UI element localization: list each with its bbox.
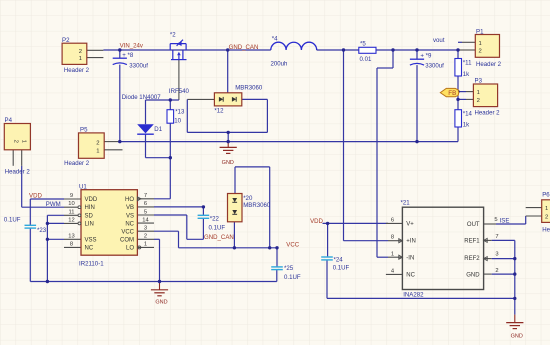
svg-text:*4: *4 xyxy=(272,36,278,43)
svg-text:NC: NC xyxy=(85,246,94,252)
svg-text:PWM: PWM xyxy=(46,201,61,208)
svg-text:1: 1 xyxy=(391,251,394,257)
svg-text:+ *8: + *8 xyxy=(122,52,134,59)
svg-text:13: 13 xyxy=(68,234,74,240)
svg-text:2: 2 xyxy=(477,98,480,104)
svg-text:VS: VS xyxy=(126,213,134,219)
svg-text:1: 1 xyxy=(477,90,480,96)
svg-text:7: 7 xyxy=(144,193,147,199)
svg-text:3300uf: 3300uf xyxy=(129,63,148,70)
svg-text:11: 11 xyxy=(68,209,74,215)
svg-text:1: 1 xyxy=(545,206,548,212)
svg-text:GND: GND xyxy=(466,272,480,278)
svg-text:IR2110-1: IR2110-1 xyxy=(79,260,104,267)
svg-text:1: 1 xyxy=(479,41,482,47)
svg-text:VCC: VCC xyxy=(286,241,299,248)
svg-text:*20: *20 xyxy=(243,195,253,202)
svg-text:P1: P1 xyxy=(476,29,484,36)
svg-text:3: 3 xyxy=(495,251,498,257)
svg-text:9: 9 xyxy=(70,193,73,199)
svg-text:Header 2: Header 2 xyxy=(476,61,502,68)
svg-text:Diode 1N4007: Diode 1N4007 xyxy=(122,94,162,101)
svg-text:NC: NC xyxy=(406,272,415,278)
svg-text:GND_CAN: GND_CAN xyxy=(204,234,234,241)
svg-text:OUT: OUT xyxy=(467,222,480,228)
svg-text:*24: *24 xyxy=(334,256,344,263)
svg-text:0.1UF: 0.1UF xyxy=(4,216,21,223)
svg-text:200uh: 200uh xyxy=(271,60,288,67)
svg-text:P4: P4 xyxy=(5,117,13,124)
svg-text:1: 1 xyxy=(79,56,82,62)
svg-text:COM: COM xyxy=(120,238,134,244)
svg-text:VIN_24v: VIN_24v xyxy=(120,43,144,50)
svg-text:vout: vout xyxy=(433,37,445,44)
svg-text:2: 2 xyxy=(545,215,548,221)
svg-text:3300uf: 3300uf xyxy=(425,63,444,70)
svg-text:IRF540: IRF540 xyxy=(169,88,190,95)
svg-text:P3: P3 xyxy=(475,78,483,85)
svg-text:6: 6 xyxy=(391,218,394,224)
svg-text:GND: GND xyxy=(222,160,234,166)
svg-text:7: 7 xyxy=(495,234,498,240)
svg-text:2: 2 xyxy=(96,140,99,146)
svg-text:*22: *22 xyxy=(210,215,220,222)
svg-text:10: 10 xyxy=(68,201,74,207)
svg-text:Header 2: Header 2 xyxy=(5,168,31,175)
svg-text:U1: U1 xyxy=(79,183,87,190)
svg-text:10: 10 xyxy=(174,117,181,124)
svg-text:VCC: VCC xyxy=(121,230,134,236)
svg-text:+IN: +IN xyxy=(406,239,416,245)
svg-text:SD: SD xyxy=(85,213,94,219)
svg-text:*21: *21 xyxy=(401,199,411,206)
svg-text:Header 2: Header 2 xyxy=(475,109,501,116)
svg-text:NC: NC xyxy=(125,221,134,227)
svg-text:*5: *5 xyxy=(360,41,366,48)
svg-text:*23: *23 xyxy=(37,227,47,234)
svg-text:0.1UF: 0.1UF xyxy=(209,224,226,231)
svg-text:2: 2 xyxy=(79,49,82,55)
svg-text:GND_CAN: GND_CAN xyxy=(229,44,259,51)
svg-text:MBR3060: MBR3060 xyxy=(235,85,263,92)
svg-text:GND: GND xyxy=(511,334,523,340)
svg-text:2: 2 xyxy=(479,49,482,55)
svg-text:LO: LO xyxy=(126,246,134,252)
svg-text:Header 2: Header 2 xyxy=(542,227,550,234)
svg-text:VDD: VDD xyxy=(85,197,98,203)
svg-text:3: 3 xyxy=(144,226,147,232)
svg-text:GND: GND xyxy=(155,300,167,306)
svg-text:INA282: INA282 xyxy=(403,291,424,298)
svg-text:Header 2: Header 2 xyxy=(64,160,90,167)
svg-text:HIN: HIN xyxy=(85,205,95,211)
svg-text:VDD: VDD xyxy=(29,192,42,199)
svg-text:P5: P5 xyxy=(80,127,88,134)
svg-text:0.1UF: 0.1UF xyxy=(284,274,301,281)
svg-text:14: 14 xyxy=(142,217,149,223)
svg-text:REF1: REF1 xyxy=(464,239,480,245)
svg-text:LIN: LIN xyxy=(85,221,94,227)
svg-text:1: 1 xyxy=(21,140,27,143)
svg-text:MBR3060: MBR3060 xyxy=(243,202,271,209)
svg-text:VSS: VSS xyxy=(85,238,97,244)
svg-text:1k: 1k xyxy=(463,71,470,78)
svg-text:REF2: REF2 xyxy=(464,256,480,262)
svg-text:V+: V+ xyxy=(406,222,414,228)
svg-text:0.1UF: 0.1UF xyxy=(333,265,350,272)
svg-text:*2: *2 xyxy=(170,31,176,38)
svg-text:P6: P6 xyxy=(542,192,550,199)
svg-text:2: 2 xyxy=(144,234,147,240)
svg-text:+ *9: + *9 xyxy=(420,52,432,59)
svg-text:5: 5 xyxy=(494,217,497,223)
svg-text:8: 8 xyxy=(70,242,73,248)
svg-text:12: 12 xyxy=(68,217,74,223)
svg-text:*13: *13 xyxy=(175,109,185,116)
svg-text:6: 6 xyxy=(144,201,147,207)
svg-text:-IN: -IN xyxy=(406,256,414,262)
svg-text:Header 2: Header 2 xyxy=(64,67,90,74)
svg-text:*25: *25 xyxy=(284,265,294,272)
svg-text:8: 8 xyxy=(391,235,394,241)
svg-text:HO: HO xyxy=(125,197,134,203)
svg-text:D1: D1 xyxy=(154,126,162,133)
svg-text:*14: *14 xyxy=(463,111,473,118)
svg-text:1: 1 xyxy=(144,242,147,248)
svg-text:1: 1 xyxy=(96,148,99,154)
svg-text:5: 5 xyxy=(144,209,147,215)
svg-text:2: 2 xyxy=(495,268,498,274)
svg-text:VB: VB xyxy=(126,205,134,211)
svg-text:0.01: 0.01 xyxy=(360,56,372,63)
svg-text:VDD: VDD xyxy=(310,218,323,225)
svg-text:FB: FB xyxy=(448,90,456,97)
svg-text:P2: P2 xyxy=(62,37,70,44)
svg-text:*12: *12 xyxy=(214,108,224,115)
svg-text:1k: 1k xyxy=(463,122,470,129)
svg-text:ISE: ISE xyxy=(500,218,510,225)
svg-text:*11: *11 xyxy=(463,59,472,66)
svg-text:2: 2 xyxy=(13,140,19,143)
